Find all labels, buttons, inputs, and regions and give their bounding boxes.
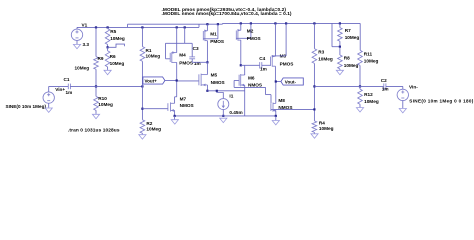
svg-text:Vin+: Vin+ [55,87,65,92]
net flag Vout+ [143,77,165,84]
svg-text:Vout-: Vout- [285,80,297,85]
svg-text:V1: V1 [82,23,88,28]
resistor R10 [95,86,97,96]
node [141,85,143,87]
svg-text:1m: 1m [260,67,267,72]
svg-text:M2: M2 [247,29,254,34]
svg-text:R12: R12 [364,92,373,97]
svg-text:R10: R10 [98,96,107,101]
resistor R6 [107,47,109,51]
svg-text:Vin-: Vin- [409,84,418,89]
svg-text:R4: R4 [319,120,325,125]
svg-text:3.3: 3.3 [83,42,90,47]
ground [311,134,318,138]
svg-text:PMOS: PMOS [179,60,193,65]
capacitor C3 [191,43,193,57]
wire [222,22,224,25]
node M7 gate tap [141,108,143,110]
wire [184,27,186,43]
node [206,90,208,92]
svg-text:PMOS: PMOS [210,39,224,44]
node [275,115,277,117]
node bias1 [107,46,109,48]
node [174,115,176,117]
transistor M7 [167,103,169,111]
ground [139,135,146,139]
resistor R8 [339,47,341,55]
svg-text:C1: C1 [64,77,70,82]
wire [275,116,277,120]
transistor M5 [198,74,200,85]
svg-text:10Meg: 10Meg [364,59,379,64]
node [216,90,218,92]
current source I1 [218,99,229,110]
ground [171,120,178,124]
wire [198,24,200,27]
resistor R1 [141,27,143,46]
wire [77,26,199,28]
svg-text:10Meg: 10Meg [345,35,360,40]
capacitor C1 [67,84,69,90]
svg-text:C4: C4 [259,56,265,61]
wire [127,24,129,27]
wire [386,85,403,87]
svg-text:I1: I1 [229,94,233,99]
svg-text:PMOS: PMOS [280,62,294,67]
svg-text:R2: R2 [146,121,152,126]
svg-text:10Meg: 10Meg [318,57,333,62]
resistor R4 [312,121,317,133]
resistor R11 [359,23,361,50]
ground [336,70,343,74]
svg-text:R5: R5 [110,29,116,34]
capacitor C2 [383,83,385,90]
voltage source Vin+ [43,92,54,103]
svg-text:SINE(0 10m 1Meg): SINE(0 10m 1Meg) [6,104,47,109]
svg-text:10Meg: 10Meg [364,99,379,104]
svg-text:NMOS: NMOS [211,80,225,85]
ground [73,44,80,48]
svg-text:10Meg: 10Meg [110,36,125,41]
svg-text:C2: C2 [381,78,387,83]
node VDD junction B [206,23,208,25]
svg-text:M8: M8 [278,98,285,103]
wire [174,116,176,120]
transistor M1 [202,31,204,40]
transistor M2 [235,31,237,40]
svg-text:M5: M5 [211,73,218,78]
svg-text:.tran 0 1031us 1028us: .tran 0 1031us 1028us [68,128,120,134]
svg-text:10Meg: 10Meg [319,126,334,131]
svg-text:1m: 1m [66,90,73,95]
wire [128,23,223,25]
ground [104,70,111,74]
svg-text:NMOS: NMOS [248,82,262,87]
wire [223,22,361,24]
svg-text:10Meg: 10Meg [98,102,113,107]
wire M4 box [165,43,167,59]
resistor R2 [140,120,145,134]
net flag Vout- [281,78,303,85]
node Vin+ tap [95,85,97,87]
svg-text:SINE(0 10m 1Meg 0 0 180): SINE(0 10m 1Meg 0 0 180) [409,99,473,104]
svg-text:M6: M6 [248,75,255,80]
node [339,46,341,48]
svg-text:10Meg: 10Meg [146,126,161,131]
svg-text:R7: R7 [345,28,351,33]
svg-text:M7: M7 [180,96,187,101]
resistor R5 [107,27,109,28]
svg-text:0.45m: 0.45m [229,110,242,115]
svg-text:R1: R1 [146,48,152,53]
ground [399,109,406,113]
wire M6 gate [234,80,239,82]
wire M5 gate [177,80,199,82]
ground [45,108,52,112]
svg-text:PMOS: PMOS [247,36,261,41]
capacitor C4 [259,62,261,68]
node [313,85,315,87]
svg-text:R11: R11 [364,51,373,56]
transistor M6 [238,75,240,86]
ground [220,118,227,122]
wire [262,64,271,66]
transistor M8 [270,103,272,111]
svg-text:M4: M4 [179,53,186,58]
svg-text:NMOS: NMOS [278,105,292,110]
svg-text:R8: R8 [344,55,350,60]
svg-text:R3: R3 [318,49,324,54]
svg-text:10Meg: 10Meg [110,61,125,66]
wire bias tap [331,23,333,46]
wire [241,64,260,66]
wire [192,61,207,63]
wire M3 bias [285,23,287,56]
wire [49,85,69,87]
resistor R7 [339,23,341,27]
svg-text:.MODEL nmos nmos(kp=1700.84u,v: .MODEL nmos nmos(kp=1700.84u,vto=0.4, la… [162,11,292,17]
node VDD junction C [240,22,242,24]
node first stage out [206,61,208,63]
svg-text:10Meg: 10Meg [146,54,161,59]
svg-text:10Meg: 10Meg [344,63,359,68]
node [240,64,242,66]
wire tail [207,90,244,92]
wire Vin+ net [70,85,142,87]
node [359,85,361,87]
wire Vin- net [314,85,383,87]
ground [356,108,363,112]
resistor R12 [359,86,361,89]
svg-text:NMOS: NMOS [180,103,194,108]
ground [272,121,279,125]
svg-text:10Meg: 10Meg [75,65,90,70]
resistor R9 [95,27,97,56]
transistor M3 [270,57,272,66]
ground [92,114,99,118]
wire M8 gate [271,108,315,110]
node [222,115,224,117]
transistor M4 [169,53,171,62]
svg-text:Vout+: Vout+ [145,79,158,84]
svg-text:1m: 1m [382,86,389,91]
voltage source Vin- [397,89,408,100]
wire [108,44,125,47]
wire M7 gate [142,108,168,110]
node VDD junction [95,26,97,28]
svg-text:R9: R9 [98,56,104,61]
svg-text:R6: R6 [110,54,116,59]
voltage source V1 [71,29,82,40]
wire source rail [175,115,276,117]
resistor R3 [313,23,315,48]
svg-text:C3: C3 [193,46,199,51]
svg-text:M1: M1 [210,32,217,37]
